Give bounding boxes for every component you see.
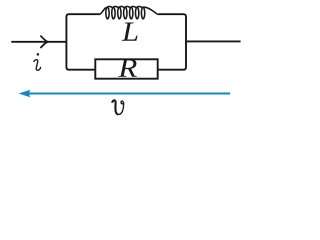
wire input lead <box>11 41 66 43</box>
label L <box>122 23 138 41</box>
label i dot <box>37 53 40 56</box>
wire frame left branch <box>66 14 99 69</box>
inductor L coil <box>100 6 158 18</box>
voltage arrow line (blue) <box>29 93 231 95</box>
resistor R box <box>95 59 157 78</box>
label R <box>118 59 137 77</box>
voltage arrowhead (blue) <box>19 90 31 98</box>
wire frame right branch <box>158 14 186 69</box>
label v <box>112 100 124 114</box>
label i body <box>34 60 41 71</box>
wire output lead <box>186 40 241 42</box>
current arrowhead on input wire <box>41 36 48 47</box>
